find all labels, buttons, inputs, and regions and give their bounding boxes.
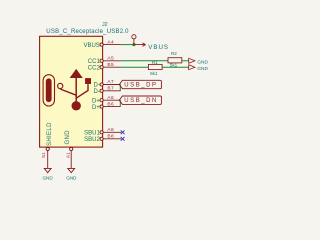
svg-text:B7: B7 [107, 86, 114, 92]
svg-text:R1: R1 [152, 60, 158, 65]
svg-text:R2: R2 [171, 51, 177, 56]
svg-text:GND: GND [66, 175, 77, 180]
svg-text:S1: S1 [41, 152, 46, 158]
svg-text:GND: GND [65, 130, 71, 145]
svg-text:USB_C_Receptacle_USB2.0: USB_C_Receptacle_USB2.0 [46, 29, 129, 35]
svg-text:A1: A1 [66, 152, 71, 158]
svg-text:CC1: CC1 [88, 59, 101, 65]
svg-text:5k1: 5k1 [150, 71, 158, 76]
svg-text:A8: A8 [107, 127, 114, 133]
svg-text:SBU1: SBU1 [84, 131, 100, 137]
svg-text:D+: D+ [92, 98, 100, 104]
svg-text:A7: A7 [107, 79, 114, 85]
svg-text:SBU2: SBU2 [84, 137, 100, 143]
svg-text:B6: B6 [107, 101, 114, 107]
svg-text:D+: D+ [92, 105, 100, 111]
svg-text:SHIELD: SHIELD [47, 122, 53, 146]
svg-text:CC2: CC2 [88, 65, 101, 71]
svg-text:GND: GND [197, 59, 208, 65]
svg-text:J2: J2 [102, 22, 108, 28]
svg-text:A6: A6 [107, 95, 114, 101]
svg-text:B8: B8 [107, 134, 114, 140]
svg-text:D-: D- [93, 83, 99, 89]
svg-text:VBUS: VBUS [83, 43, 99, 49]
svg-text:B5: B5 [107, 62, 114, 68]
svg-text:VBUS: VBUS [148, 44, 169, 51]
svg-text:D-: D- [93, 89, 99, 95]
svg-text:GND: GND [197, 66, 208, 72]
svg-text:A5: A5 [107, 56, 114, 62]
svg-text:USB_DN: USB_DN [124, 98, 158, 104]
svg-text:5k1: 5k1 [170, 62, 178, 67]
svg-text:USB_DP: USB_DP [124, 82, 157, 88]
svg-text:A4: A4 [107, 39, 114, 45]
svg-text:GND: GND [42, 175, 53, 180]
